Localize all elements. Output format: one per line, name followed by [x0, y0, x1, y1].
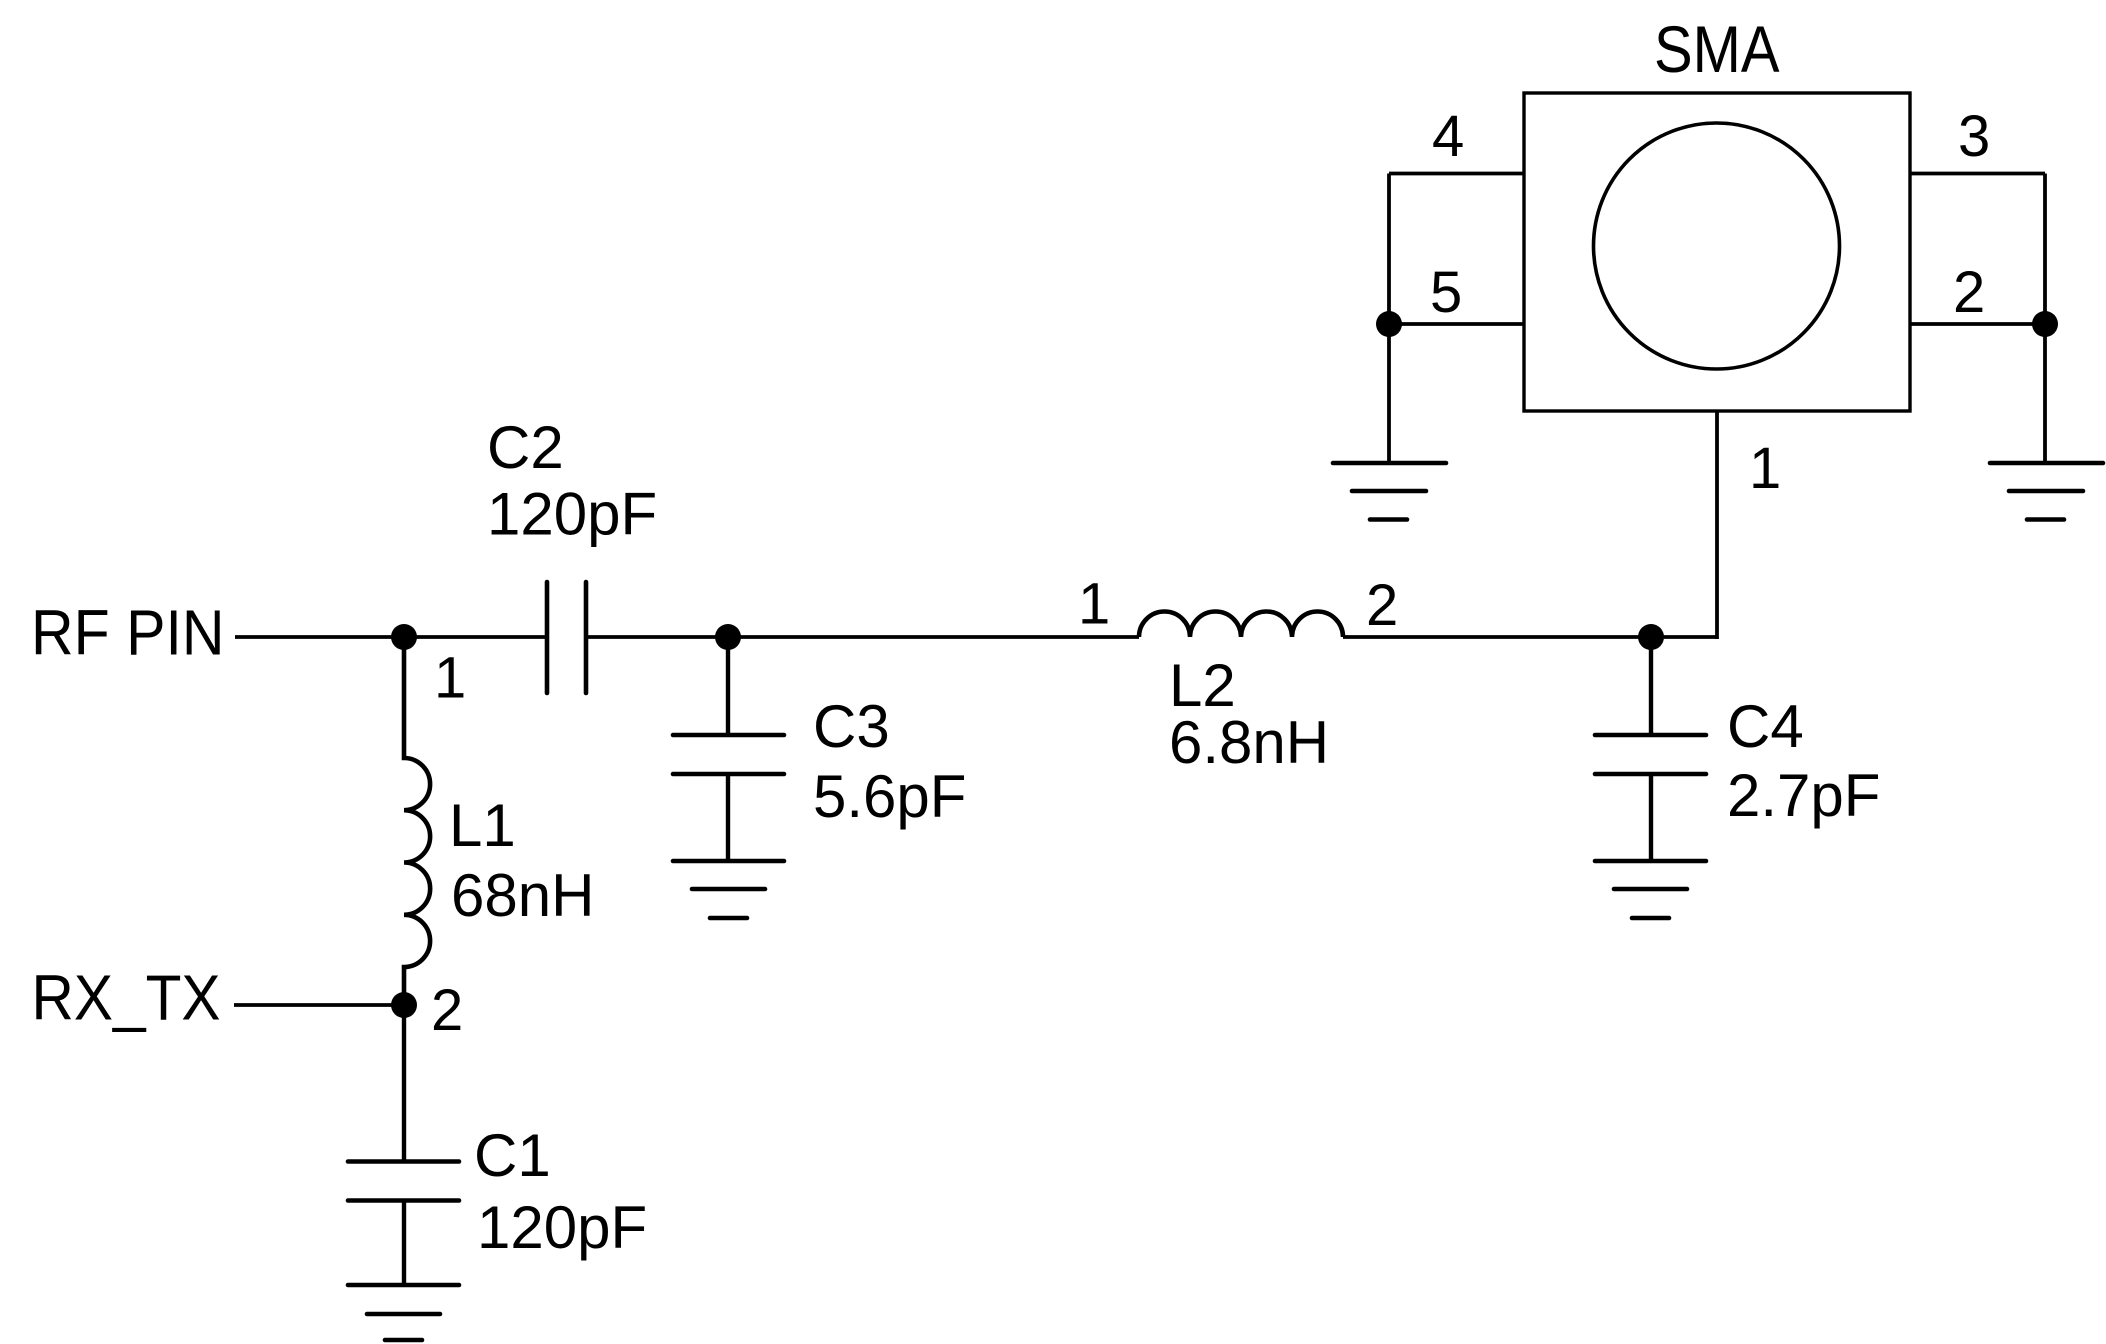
wire RF PIN lead [235, 635, 545, 639]
wire node2 to C1 [402, 1005, 406, 1161]
wire RX_TX lead [234, 1003, 404, 1007]
capacitor C2 [547, 582, 586, 693]
wire C4 to ground [1649, 774, 1653, 861]
svg-text:C1: C1 [474, 1122, 551, 1189]
capacitor C3 [673, 735, 784, 774]
capacitor C4 [1595, 735, 1706, 774]
ground (SMA pin 5) [1333, 463, 1446, 520]
capacitor C1 [348, 1162, 459, 1201]
svg-text:5: 5 [1430, 260, 1462, 325]
svg-text:1: 1 [1749, 436, 1781, 501]
svg-text:2.7pF: 2.7pF [1727, 762, 1880, 829]
svg-text:L1: L1 [449, 792, 516, 859]
ground (C3) [673, 861, 784, 918]
ground (C1) [348, 1285, 459, 1340]
svg-text:C3: C3 [813, 693, 890, 760]
svg-text:120pF: 120pF [487, 481, 657, 548]
node junction SMA pin 5 ground [1376, 311, 1402, 337]
svg-text:C4: C4 [1727, 693, 1804, 760]
ground (C4) [1595, 861, 1706, 918]
svg-text:1: 1 [434, 646, 466, 711]
connector SMA circle [1594, 123, 1840, 369]
svg-text:68nH: 68nH [451, 862, 594, 929]
wire L2 to SMA pin1 corner [1343, 635, 1717, 639]
wire SMA pin 5 [1389, 322, 1524, 326]
node 2 junction RX_TX / L1 / C1 [391, 992, 417, 1018]
node 1 junction RF PIN / C2 / L1 [391, 624, 417, 650]
svg-text:2: 2 [1366, 573, 1398, 638]
node junction L2 / C4 / SMA pin1 [1638, 624, 1664, 650]
wire node B to C3 [726, 637, 730, 735]
svg-text:3: 3 [1958, 104, 1990, 169]
wire SMA pin 4 [1389, 172, 1524, 176]
svg-text:1: 1 [1078, 572, 1110, 637]
wire SMA left vertical to ground [1387, 174, 1391, 464]
inductor L2 [1139, 612, 1343, 638]
wire node C to C4 [1649, 637, 1653, 735]
ground (SMA pin 2) [1990, 463, 2103, 520]
svg-text:C2: C2 [487, 414, 564, 481]
inductor L1 [404, 637, 430, 1005]
svg-text:RF PIN: RF PIN [31, 597, 225, 669]
svg-text:2: 2 [1953, 260, 1985, 325]
wire SMA pin 3 [1910, 172, 2045, 176]
svg-text:2: 2 [431, 978, 463, 1043]
wire C3 to ground [726, 774, 730, 861]
wire C1 to ground [402, 1200, 406, 1285]
wire SMA right vertical to ground [2043, 174, 2047, 464]
svg-text:6.8nH: 6.8nH [1169, 709, 1329, 776]
svg-text:SMA: SMA [1654, 12, 1780, 86]
svg-text:5.6pF: 5.6pF [813, 763, 966, 830]
svg-text:120pF: 120pF [477, 1194, 647, 1261]
connector SMA body [1524, 93, 1910, 411]
node junction C2 / C3 [715, 624, 741, 650]
svg-text:4: 4 [1432, 104, 1464, 169]
svg-text:RX_TX: RX_TX [32, 962, 221, 1034]
wire SMA pin 2 [1910, 322, 2045, 326]
node junction SMA pin 2 ground [2032, 311, 2058, 337]
wire C2 to C3 to L2 [588, 635, 1139, 639]
wire SMA pin 1 vertical [1715, 411, 1719, 639]
